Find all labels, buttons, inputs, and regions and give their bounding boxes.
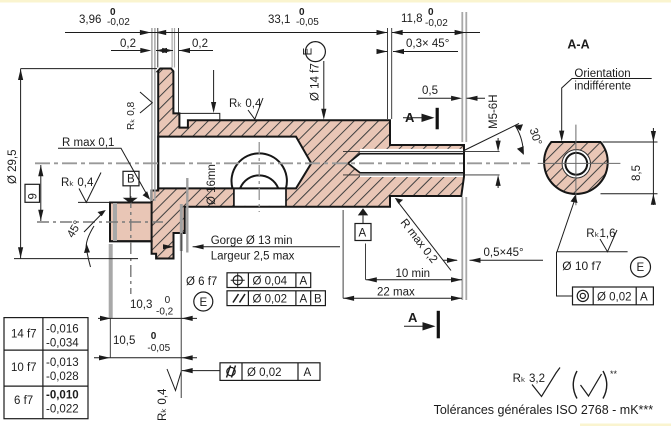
svg-text:10 f7: 10 f7: [11, 362, 37, 374]
svg-text:-0,05: -0,05: [296, 17, 319, 28]
M5 thread major lines: [343, 152, 500, 175]
svg-text:A: A: [408, 310, 418, 325]
A-A body (hatched circle with flat): [544, 142, 608, 194]
svg-text:-0,2: -0,2: [156, 307, 174, 318]
main horizontal centerline: [35, 162, 530, 164]
E circle (envelope) lower: [194, 292, 213, 311]
svg-text:Gorge Ø 13 min: Gorge Ø 13 min: [211, 235, 293, 247]
dimension 0,5 (pin length): [418, 97, 485, 99]
groove width leader arrows: [166, 246, 340, 248]
svg-text:10,5: 10,5: [113, 335, 135, 347]
svg-text:14 f7: 14 f7: [11, 329, 37, 341]
boss vertical centerline: [130, 196, 132, 294]
parallelism tolerance frame: [227, 291, 325, 306]
svg-text:-0,016: -0,016: [46, 324, 79, 336]
section arrow A bottom: [437, 311, 440, 339]
svg-text:indifférente: indifférente: [574, 81, 631, 93]
svg-text:0,3× 45°: 0,3× 45°: [406, 38, 449, 50]
svg-text:Rₖ 0,8: Rₖ 0,8: [126, 101, 137, 130]
svg-text:**: **: [610, 369, 618, 379]
svg-text:Ø 0,02: Ø 0,02: [597, 292, 632, 304]
section arrow A top: [436, 108, 439, 130]
dimension 11,8 0/-0,02: [392, 32, 480, 34]
svg-text:Ø 0,02: Ø 0,02: [253, 294, 288, 306]
dimension 8,5: [601, 142, 658, 194]
svg-text:0: 0: [165, 295, 171, 306]
svg-text:-0,010: -0,010: [46, 390, 79, 402]
svg-text:A: A: [300, 294, 308, 306]
step edge line on flange right: [179, 113, 219, 120]
svg-text:0,5: 0,5: [422, 85, 438, 97]
gray extension bar above flange right: [172, 28, 174, 68]
svg-text:0,2: 0,2: [120, 38, 136, 50]
svg-text:-0,034: -0,034: [46, 338, 79, 350]
position tolerance frame: [227, 273, 311, 288]
ball seat inner arc: [240, 175, 278, 188]
svg-text:-0,02: -0,02: [425, 18, 448, 29]
main body section (hatched): [110, 69, 464, 259]
circular runout frame: [557, 252, 573, 296]
extension lines flange: [158, 28, 179, 113]
svg-text:Ø 29,5: Ø 29,5: [7, 149, 19, 184]
svg-text:10 min: 10 min: [396, 268, 431, 280]
dimension 3,96 0/-0,02: [65, 32, 388, 34]
bore 16 cavity (white): [158, 137, 311, 189]
yellow bottom-right border strip: [580, 424, 671, 426]
angle 30 degrees: [464, 124, 519, 151]
thread clearance band bottom (white): [360, 173, 464, 177]
A-A hole: [565, 153, 587, 175]
svg-text:-0,022: -0,022: [46, 404, 79, 416]
label diameter 16 min: [213, 70, 215, 108]
bore outline: [158, 137, 311, 189]
svg-text:22 max: 22 max: [377, 287, 415, 299]
gray extension pair at right end (top): [462, 12, 466, 142]
dimension 9 (boxed): [25, 184, 40, 202]
svg-text:11,8: 11,8: [401, 13, 423, 25]
dimension 33,1 0/-0,05: [155, 30, 166, 35]
boss horizontal centerline: [37, 221, 163, 223]
gray extension bar in groove: [180, 204, 183, 251]
svg-text:Ø 0,02: Ø 0,02: [247, 367, 282, 379]
yellow top border strip: [0, 0, 671, 3]
svg-text:R max 0,1: R max 0,1: [62, 137, 114, 149]
svg-text:E: E: [303, 48, 315, 56]
outer profile outline: [110, 69, 464, 259]
svg-text:0: 0: [151, 331, 157, 342]
svg-text:B: B: [127, 174, 135, 186]
svg-text:Ø 10 f7: Ø 10 f7: [562, 259, 602, 273]
svg-text:A: A: [304, 367, 312, 379]
svg-text:Rₖ1,6: Rₖ1,6: [586, 228, 615, 240]
extension line boss left lower: [109, 318, 111, 358]
seat vertical centerline: [258, 142, 260, 212]
extension line groove right: [180, 233, 182, 398]
label R max 0,2: [397, 201, 451, 271]
gray extension bar left of flange: [152, 28, 155, 201]
M5 tapped hole cavity (white): [348, 154, 464, 173]
svg-text:A: A: [300, 276, 308, 288]
ball seat outer arc: [231, 153, 286, 188]
cylindricity tolerance frame: [182, 370, 220, 372]
svg-text:3,96: 3,96: [79, 14, 101, 26]
svg-text:E: E: [200, 297, 208, 309]
svg-text:E: E: [637, 262, 645, 274]
datum A (main view): [358, 208, 368, 215]
dimension 0,3x45: [380, 51, 458, 53]
svg-text:9: 9: [28, 193, 40, 199]
svg-text:B: B: [314, 294, 322, 306]
seat groove recess walls: [234, 188, 286, 206]
svg-text:Ø 14 f7: Ø 14 f7: [310, 63, 322, 101]
extension lines chamfer 0,3: [388, 28, 392, 119]
tolerance table: [4, 318, 88, 419]
svg-text:-0,028: -0,028: [46, 371, 79, 383]
boss end face (unhatched): [110, 203, 152, 242]
gray extension bar below boss: [113, 203, 117, 241]
general roughness (check) symbol: [573, 371, 577, 399]
label diameter 14 f7 with E circle: [305, 42, 325, 62]
datum B: [123, 171, 139, 186]
svg-text:6 f7: 6 f7: [14, 395, 33, 407]
svg-text:0: 0: [428, 7, 434, 18]
svg-text:Rₖ 0,4: Rₖ 0,4: [157, 388, 169, 421]
dimension 0,2 left: [111, 50, 168, 52]
svg-text:Rₖ 0,4: Rₖ 0,4: [229, 98, 262, 110]
svg-text:-0,013: -0,013: [46, 357, 79, 369]
svg-text:Rₖ 3,2: Rₖ 3,2: [513, 373, 545, 385]
svg-text:Rₖ 0,4: Rₖ 0,4: [61, 177, 94, 189]
svg-text:-0,05: -0,05: [147, 343, 170, 354]
svg-text:Ø 6 f7: Ø 6 f7: [186, 276, 217, 288]
M5 hole outline: [348, 154, 464, 173]
gray extension bar right of groove: [186, 178, 188, 253]
A-A centerlines: [538, 125, 621, 206]
svg-text:10,3: 10,3: [130, 299, 152, 311]
dimension 0,2 right: [163, 50, 213, 52]
svg-text:A: A: [359, 228, 367, 240]
svg-text:0,2: 0,2: [192, 38, 208, 50]
A-A thread circle: [562, 150, 590, 178]
svg-text:Ø 16mn: Ø 16mn: [206, 164, 218, 205]
svg-text:0,5×45°: 0,5×45°: [484, 247, 524, 259]
svg-text:Largeur 2,5 max: Largeur 2,5 max: [211, 251, 295, 263]
thread clearance band top (white): [360, 149, 464, 154]
svg-text:Ø 0,04: Ø 0,04: [253, 276, 288, 288]
svg-text:Tolérances générales ISO 2768: Tolérances générales ISO 2768 - mK***: [434, 403, 654, 417]
svg-text:33,1: 33,1: [268, 14, 290, 26]
svg-text:8,5: 8,5: [631, 165, 643, 181]
svg-text:A: A: [640, 292, 648, 304]
gray extension bar below block: [109, 244, 113, 318]
seat groove recess (white): [234, 188, 286, 206]
svg-text:-0,02: -0,02: [107, 17, 130, 28]
svg-text:A: A: [405, 110, 415, 125]
gray extension pair at right end (bottom): [462, 197, 466, 300]
svg-text:M5-6H: M5-6H: [488, 94, 500, 129]
svg-text:A-A: A-A: [567, 38, 589, 52]
